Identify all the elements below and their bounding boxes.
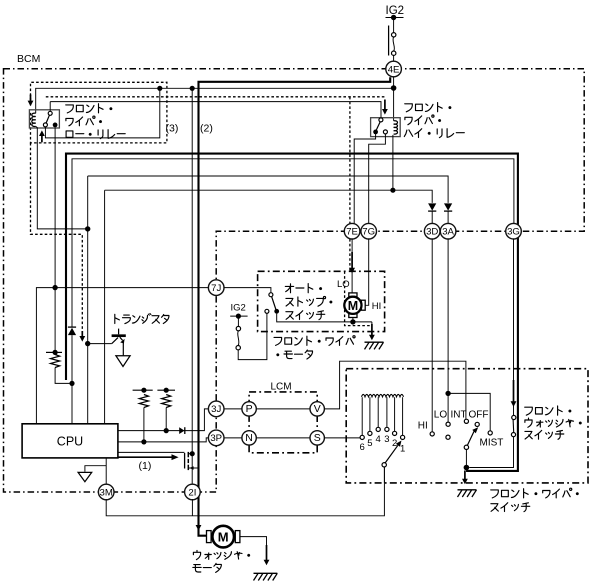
wire CPU to 3J bbox=[118, 409, 209, 431]
rotary contact 4 bbox=[377, 397, 379, 427]
resistor R3 top bar bbox=[157, 389, 175, 391]
wire motor bottom bbox=[352, 318, 354, 322]
relay K1 contact open bbox=[43, 123, 47, 127]
wire pivot to ground dot bbox=[465, 450, 467, 468]
svg-text:LO: LO bbox=[337, 279, 350, 290]
flow arrow motor ground bbox=[371, 324, 373, 336]
svg-text:(1): (1) bbox=[139, 460, 152, 472]
svg-text:IG2: IG2 bbox=[231, 303, 246, 314]
svg-text:3G: 3G bbox=[507, 227, 520, 238]
ground (wiper motor) bbox=[365, 341, 384, 343]
junction dot diode column bbox=[69, 381, 74, 386]
resistor R2 bbox=[139, 395, 148, 408]
dash-dot enclosure front wiper switch bbox=[346, 369, 588, 483]
svg-text:N: N bbox=[245, 432, 253, 444]
wire bus3 (3A rail) bbox=[88, 176, 448, 203]
svg-text:6: 6 bbox=[360, 442, 365, 453]
wire 3M-2I-wiper arm rail bbox=[106, 467, 384, 516]
rotary switch comb bbox=[362, 394, 404, 396]
diode D3 above 3A bbox=[444, 203, 452, 210]
connector 3A bbox=[440, 223, 456, 239]
flow arrow into high relay bbox=[384, 100, 386, 111]
svg-text:(3): (3) bbox=[166, 123, 179, 135]
junction dot transistor base bbox=[85, 341, 90, 346]
wire 2I stub bbox=[191, 499, 193, 516]
wire 4E feed rail to low relay bbox=[36, 88, 394, 113]
svg-text:LCM: LCM bbox=[271, 382, 292, 393]
svg-text:4E: 4E bbox=[388, 64, 400, 75]
ground marker triangle (transistor emitter) bbox=[116, 356, 130, 367]
contact LO upper bbox=[446, 422, 450, 426]
wire 7E to motor LO bbox=[351, 239, 353, 293]
connector 3G bbox=[506, 223, 522, 239]
connector 3P bbox=[208, 430, 224, 446]
wire auto-stop closed contact to motor common bbox=[277, 314, 372, 322]
connector 3J bbox=[208, 401, 224, 417]
junction dot high relay coil on bus4 bbox=[390, 188, 395, 193]
svg-text:INT: INT bbox=[451, 410, 467, 421]
junction dot B (MOSFET drain branch) bbox=[190, 86, 195, 91]
junction dot MOSFET drain bbox=[190, 451, 195, 456]
transistor Q1 bbox=[88, 343, 112, 345]
junction dot R3 on 3J rail bbox=[164, 428, 169, 433]
circuit breaker (IG2 feed) bbox=[388, 26, 390, 56]
wire CPU to MOSFET gate bbox=[118, 451, 184, 453]
wire MOSFET drain column (dot B to 2I) bbox=[191, 88, 193, 485]
svg-text:1: 1 bbox=[400, 443, 405, 454]
svg-text:CPU: CPU bbox=[57, 434, 83, 448]
BCM module boundary (dash-dot) bbox=[4, 69, 585, 492]
label low relay text bbox=[66, 104, 113, 113]
wire IG2 terminal bar bbox=[386, 17, 404, 19]
wire 3A to LO contact bbox=[447, 239, 449, 422]
wire K1 coil bottom to junction row bbox=[36, 126, 88, 228]
svg-text:3D: 3D bbox=[426, 227, 438, 238]
contact MIST bbox=[488, 431, 492, 435]
connector P bbox=[242, 402, 256, 416]
relay K1 coil bbox=[32, 113, 36, 126]
label auto stop switch bbox=[285, 284, 322, 293]
wire K1 open contact to feed rail bbox=[45, 88, 159, 138]
dotted enclosure front-wiper-low-relay bbox=[31, 82, 167, 143]
flow arrow up under low relay bbox=[41, 135, 43, 142]
junction dot motor common bbox=[350, 319, 355, 324]
wire R1 lead bbox=[54, 289, 56, 353]
svg-text:MIST: MIST bbox=[480, 437, 504, 448]
diode D4 on 3J rail bbox=[179, 427, 184, 434]
wire IG2 mini down bbox=[237, 316, 239, 326]
flow arrow switch ground bbox=[464, 471, 466, 480]
wire CPU to 3P bbox=[118, 438, 209, 442]
flow arrow on washer motor feed bbox=[198, 512, 200, 526]
contact LO lower bbox=[446, 435, 450, 439]
relay K2 contact open bbox=[383, 130, 387, 134]
wiper switch pivot bbox=[464, 445, 468, 449]
junction dot R2 on 3P rail bbox=[141, 439, 146, 444]
relay K1 front wiper low relay body bbox=[29, 110, 59, 128]
connector S bbox=[310, 431, 324, 445]
resistor R1 bbox=[50, 355, 59, 368]
wire diode column to CPU bbox=[71, 335, 73, 424]
wire bus2 (3G rail) bbox=[72, 159, 514, 327]
junction dot IG2 mini bbox=[236, 314, 241, 319]
dotted path auto-stop to high relay bbox=[46, 96, 385, 98]
wire IG2 mini bar bbox=[230, 315, 247, 317]
wire bus4 (3D rail) bbox=[105, 190, 433, 203]
connector N bbox=[242, 431, 256, 445]
auto-stop switch pivot bbox=[269, 293, 273, 297]
connector V bbox=[310, 402, 324, 416]
washer switch contact top bbox=[512, 415, 516, 419]
svg-text:3P: 3P bbox=[210, 433, 222, 444]
wire CPU col1 with 7J rail bbox=[36, 288, 208, 424]
label transistor bbox=[115, 314, 169, 324]
svg-text:3A: 3A bbox=[442, 227, 454, 238]
wire breaker to 4E bbox=[393, 55, 395, 61]
label front washer switch bbox=[525, 406, 572, 415]
label front wiper motor bbox=[274, 336, 355, 346]
wire N to S bbox=[256, 437, 310, 439]
contact OFF bbox=[475, 422, 479, 426]
junction dot switch common bbox=[464, 465, 470, 471]
ground (wiper switch) bbox=[458, 489, 477, 491]
auto-stop switch blade bbox=[272, 297, 276, 310]
connector 7G bbox=[361, 223, 377, 239]
svg-text:3J: 3J bbox=[211, 404, 221, 415]
svg-text:2I: 2I bbox=[188, 487, 196, 498]
relay K1 contact closed bbox=[53, 123, 58, 128]
svg-text:7J: 7J bbox=[211, 283, 221, 294]
rotary contact 1 bbox=[402, 397, 404, 435]
wire bus3 column to CPU bbox=[87, 176, 89, 424]
svg-text:5: 5 bbox=[367, 438, 372, 449]
wire IG2 down to breaker bbox=[393, 18, 395, 33]
dotted path (3) to transistor bbox=[31, 143, 83, 330]
svg-text:4: 4 bbox=[376, 434, 381, 445]
junction dot MIST branch bbox=[445, 391, 450, 396]
wire washer motor to ground bbox=[240, 537, 267, 550]
relay K1 switch pivot bbox=[48, 111, 52, 115]
wire motor common to ground bbox=[371, 322, 373, 327]
relay K2 switch blade bbox=[376, 122, 380, 130]
flow arrow motor LO bbox=[351, 252, 353, 269]
resistor R2 top bar bbox=[133, 389, 153, 391]
contact HI bbox=[430, 432, 434, 436]
connector 2I bbox=[185, 484, 201, 500]
relay K2 front wiper high relay body bbox=[371, 118, 401, 137]
relay K2 contact closed bbox=[373, 130, 378, 135]
wire 7G to motor HI bbox=[365, 239, 368, 305]
connector 3M bbox=[98, 484, 114, 500]
flow arrow washer motor ground bbox=[266, 545, 268, 561]
rotary contact 5 bbox=[369, 397, 371, 431]
connector 3D bbox=[424, 223, 440, 239]
wire bus thick (washer switch rail) bbox=[66, 154, 518, 471]
resistor R3 bbox=[162, 395, 171, 408]
washer switch contact bottom bbox=[511, 433, 515, 437]
wire relay pivot rail to high relay bbox=[50, 102, 381, 118]
wire MIST feed bbox=[448, 393, 490, 430]
circuit breaker (auto-stop feed) bbox=[236, 326, 240, 330]
svg-text:P: P bbox=[246, 403, 253, 415]
wire R2 to CPU rail bbox=[143, 408, 145, 442]
wire washer switch to common dot bbox=[469, 437, 513, 468]
ground marker triangle (CPU) bbox=[78, 472, 92, 481]
rotary contact 3 bbox=[386, 397, 388, 427]
contact INT bbox=[464, 419, 468, 423]
dash-dot enclosure front wiper motor bbox=[258, 271, 385, 331]
diode D1 (up) on bus2 column bbox=[68, 328, 76, 335]
relay K2 coil bbox=[394, 121, 398, 134]
rotary contact 2 bbox=[394, 397, 396, 431]
wire 3J to P bbox=[224, 408, 242, 410]
wire K2 open contact to 7G bbox=[369, 134, 386, 224]
svg-text:HI: HI bbox=[372, 301, 382, 312]
wire 3G to washer switch bbox=[513, 239, 515, 416]
wire 7J to auto-stop pivot bbox=[224, 288, 271, 293]
wire CPU ground branch bbox=[85, 466, 106, 472]
auto-stop contact closed bbox=[274, 309, 279, 314]
junction dot A (relay contact branch) bbox=[157, 86, 162, 91]
svg-text:3M: 3M bbox=[100, 487, 113, 498]
wire diode to 3A bbox=[447, 211, 449, 224]
flow arrow washer switch bbox=[513, 380, 515, 402]
svg-text:BCM: BCM bbox=[17, 53, 40, 65]
wire K1 closed contact down bbox=[54, 127, 56, 287]
transistor Q2 MOSFET bbox=[184, 453, 186, 469]
junction dot IG2 bbox=[391, 15, 396, 20]
wire 3P to N bbox=[224, 437, 242, 439]
wiper switch blade bbox=[467, 431, 474, 446]
label washer motor bbox=[193, 550, 250, 559]
svg-text:7G: 7G bbox=[362, 227, 375, 238]
svg-text:M: M bbox=[218, 529, 229, 544]
svg-text:7E: 7E bbox=[346, 227, 358, 238]
junction dot resistor branch on 7J rail bbox=[52, 285, 57, 290]
wire CPU bottom to 3M bbox=[105, 458, 107, 485]
label front wiper switch bbox=[491, 488, 579, 498]
flow arrow (3) at transistor base bbox=[81, 331, 83, 337]
relay K2 switch pivot bbox=[379, 118, 383, 122]
flow arrow (1) CPU to MOSFET bbox=[118, 456, 172, 458]
wire K1 pivot up to series rail bbox=[49, 102, 51, 112]
resistor R1 top bar bbox=[46, 351, 62, 353]
LCM enclosure dash-dot bbox=[249, 392, 317, 453]
motor M2 washer motor bbox=[207, 531, 212, 543]
diode D2 above 3D bbox=[428, 203, 436, 210]
svg-text:HI: HI bbox=[418, 421, 428, 432]
wire breaker to auto-stop open contact bbox=[238, 313, 267, 359]
svg-text:M: M bbox=[348, 299, 358, 313]
label high relay text bbox=[405, 103, 452, 112]
relay K1 switch blade bbox=[46, 115, 49, 123]
wire 3D to HI contact bbox=[431, 239, 433, 432]
wire K2 coil bottom to bus bbox=[392, 135, 394, 190]
wire S to rotary contact 6 bbox=[324, 437, 360, 439]
wire K2 closed contact to 7E bbox=[354, 133, 375, 224]
CPU block bbox=[22, 424, 118, 458]
motor M1 front wiper motor bbox=[349, 293, 357, 297]
svg-text:(2): (2) bbox=[200, 123, 213, 135]
ground (washer motor) bbox=[254, 572, 278, 574]
wire P to V bbox=[256, 408, 310, 410]
wire diode to 3D bbox=[431, 211, 433, 224]
svg-text:OFF: OFF bbox=[469, 410, 489, 421]
rotary contact 6 bbox=[361, 397, 363, 435]
junction dot below 4E bbox=[391, 85, 397, 91]
rotary wiper arm bbox=[382, 463, 386, 467]
svg-text:V: V bbox=[314, 403, 321, 415]
connector 7J bbox=[208, 280, 224, 296]
wire 4E down to high relay coil bbox=[393, 77, 395, 121]
flow arrow into low relay bbox=[30, 95, 32, 102]
connector 7E bbox=[344, 223, 360, 239]
wire thick feed 4E to washer motor (2) bbox=[199, 77, 391, 536]
svg-text:LO: LO bbox=[434, 410, 448, 421]
svg-text:S: S bbox=[314, 432, 321, 444]
wire V to INT contact bbox=[324, 361, 466, 419]
svg-text:3: 3 bbox=[384, 434, 389, 445]
wire bus4 column to CPU bbox=[104, 190, 106, 424]
wire R3 to CPU rail bbox=[165, 408, 167, 431]
connector 4E bbox=[386, 61, 402, 77]
wire R1 bottom to diode column bbox=[55, 368, 72, 384]
junction dot bus3/relay coil row bbox=[85, 226, 90, 231]
auto-stop contact open bbox=[265, 309, 269, 313]
washer switch blade bbox=[512, 420, 515, 433]
